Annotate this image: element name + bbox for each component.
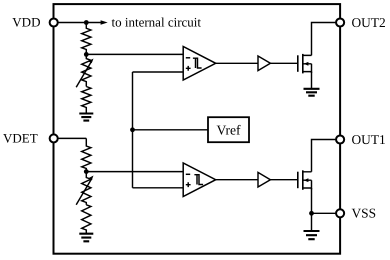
Vref box U3 — [208, 117, 249, 142]
U2 minus sign — [186, 173, 190, 175]
wire bus to U1 plus input — [133, 71, 184, 73]
U2 hysteresis symbol — [194, 175, 203, 185]
svg-text:VDET: VDET — [3, 131, 38, 146]
wire Q2 source to VSS rail — [311, 188, 313, 213]
svg-text:OUT1: OUT1 — [352, 132, 386, 147]
pin OUT1 — [336, 135, 344, 143]
pin VSS — [336, 209, 344, 217]
resistor R3 (lower divider top) — [82, 138, 91, 171]
resistor R1 (upper divider top) — [82, 23, 91, 55]
ground (upper divider) — [79, 114, 93, 121]
arrow to internal circuit — [101, 20, 108, 25]
wire VDET pin to divider — [54, 137, 87, 139]
wire buffer B1 to Q1 gate — [270, 62, 297, 64]
wire Vref bus vertical — [132, 72, 134, 188]
wire bus to Vref box — [133, 129, 209, 131]
junction bus to Vref — [130, 127, 135, 132]
variable resistor VR2 (lower divider) — [76, 172, 93, 205]
transistor Q1 — [298, 54, 312, 74]
buffer B2 — [258, 172, 270, 187]
wire U1 output to buffer — [216, 62, 258, 64]
U2 plus sign — [186, 182, 191, 187]
wire Q2 drain to OUT1 — [312, 140, 341, 172]
transistor Q2 — [298, 170, 312, 190]
variable resistor VR1 (upper divider) — [76, 54, 93, 87]
U1 plus sign — [186, 66, 191, 71]
svg-text:VSS: VSS — [352, 206, 377, 221]
svg-text:to internal circuit: to internal circuit — [112, 15, 202, 30]
IC outline box — [54, 4, 341, 254]
resistor R4 (lower divider bottom) — [82, 205, 91, 234]
wire bus to U2 plus input — [133, 187, 184, 189]
node between R3 and VR2 — [84, 169, 89, 174]
resistor R2 (upper divider bottom) — [82, 87, 91, 114]
comparator U2 — [183, 163, 216, 197]
ground (lower divider) — [79, 234, 93, 242]
wire Q1 drain to OUT2 — [312, 23, 341, 56]
svg-text:VDD: VDD — [12, 15, 40, 30]
junction Q2 source / VSS — [309, 211, 314, 216]
U1 minus sign — [186, 57, 190, 59]
wire node to comparator U1 minus input — [86, 53, 183, 55]
svg-text:Vref: Vref — [216, 122, 241, 137]
buffer B1 — [258, 56, 270, 71]
wire buffer B2 to Q2 gate — [270, 179, 297, 181]
U1 hysteresis symbol — [193, 58, 202, 68]
ground (Q2 source) — [311, 213, 313, 231]
pin VDD — [50, 18, 58, 26]
wire VSS to Q2 source — [312, 212, 341, 214]
wire Q1 source to ground — [311, 72, 313, 89]
pin VDET — [50, 134, 58, 142]
svg-text:OUT2: OUT2 — [352, 15, 386, 30]
pin OUT2 — [336, 18, 344, 26]
node between R1 and VR1 — [84, 52, 89, 57]
node junction on VDD rail — [84, 20, 89, 25]
wire VDD rail — [54, 22, 102, 24]
wire node to comparator U2 minus input — [86, 171, 183, 173]
wire U2 output to buffer — [216, 179, 258, 181]
comparator U1 — [183, 47, 216, 81]
ground (Q1 source) — [304, 89, 320, 96]
